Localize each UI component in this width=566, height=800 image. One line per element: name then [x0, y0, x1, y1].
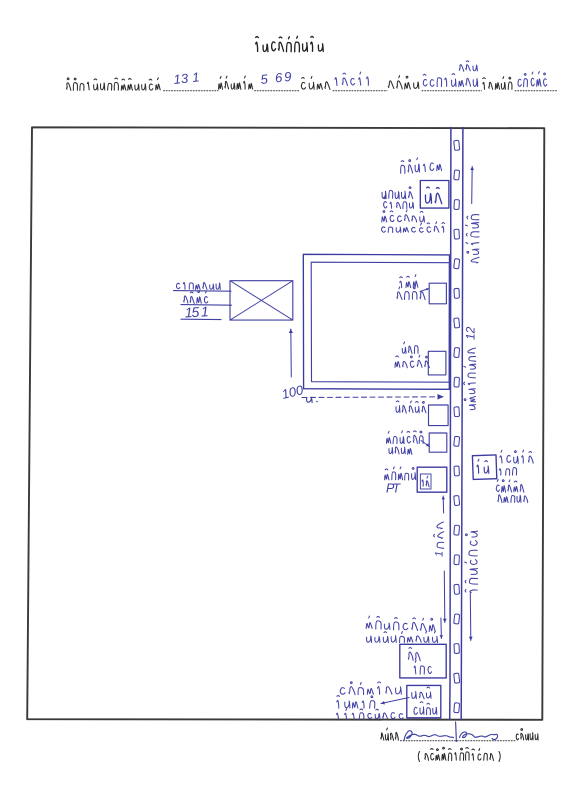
svg-text:PT: PT: [386, 482, 401, 496]
svg-text:100: 100: [280, 382, 305, 402]
svg-text:15 1: 15 1: [184, 303, 209, 320]
svg-text:13 1: 13 1: [173, 69, 200, 87]
svg-text:12: 12: [464, 326, 478, 340]
svg-text:5 69: 5 69: [260, 69, 292, 87]
svg-text:1: 1: [434, 551, 446, 557]
